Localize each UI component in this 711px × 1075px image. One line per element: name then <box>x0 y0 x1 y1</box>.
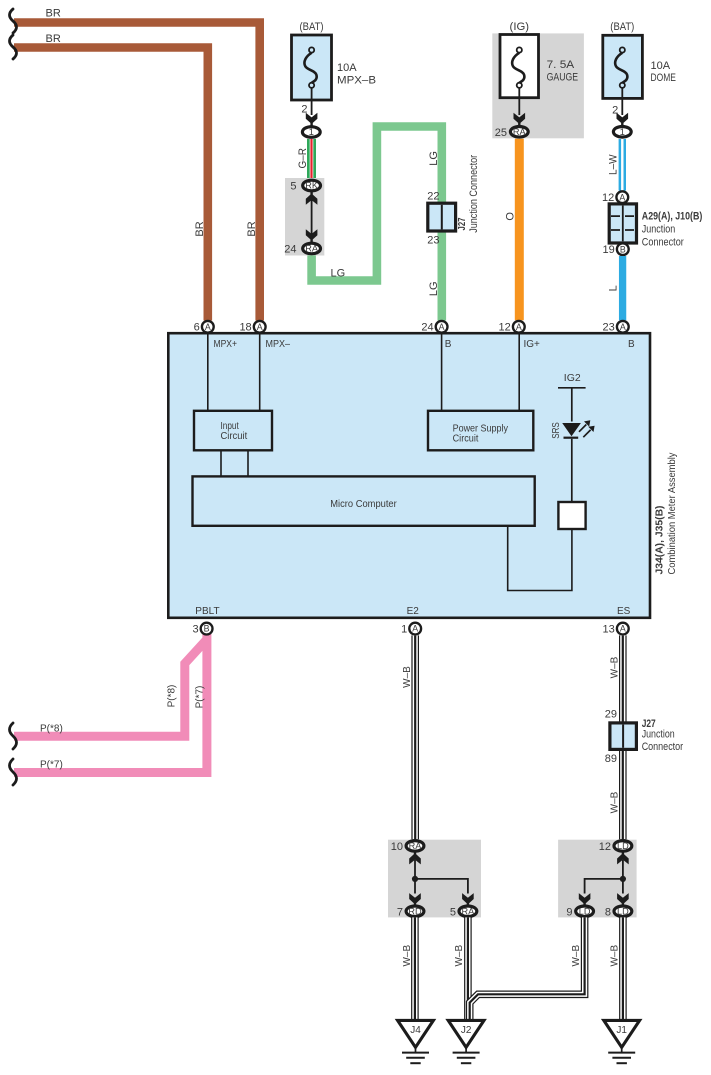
svg-text:12: 12 <box>602 192 614 204</box>
svg-text:1: 1 <box>401 624 407 636</box>
svg-text:DOME: DOME <box>651 72 676 84</box>
wire pin24 to power supply <box>441 335 443 412</box>
meter pin 6 A <box>202 321 214 333</box>
break symbol P(*8) <box>10 723 17 749</box>
wire G-R <box>307 139 316 179</box>
svg-text:A: A <box>516 322 522 332</box>
svg-text:5: 5 <box>290 181 296 193</box>
svg-text:IG2: IG2 <box>564 372 581 384</box>
svg-text:W–B: W–B <box>402 666 413 688</box>
wire W-B RD7 to ground J4 <box>411 917 419 1020</box>
svg-text:RA: RA <box>513 127 527 137</box>
arrow down into RA <box>306 229 318 242</box>
meter pin 24 A <box>436 321 448 333</box>
connector pin 12 A <box>616 191 628 203</box>
wire branch to LD 9 <box>585 879 623 894</box>
arrow up into RA 10 <box>409 852 421 865</box>
wire IG2 to LED <box>571 388 573 422</box>
arrow into connector 1 (DOME) <box>617 113 629 126</box>
junction dot (left block) <box>412 876 418 882</box>
svg-text:J1: J1 <box>616 1025 627 1036</box>
svg-text:O: O <box>505 212 517 221</box>
connector oval 1 (DOME) <box>613 127 631 138</box>
svg-text:B: B <box>628 339 635 350</box>
svg-text:1: 1 <box>309 127 314 137</box>
combination meter assembly box <box>168 333 650 618</box>
svg-text:BR: BR <box>46 8 61 20</box>
svg-text:W–B: W–B <box>402 945 413 967</box>
svg-text:5: 5 <box>450 906 456 918</box>
svg-text:W–B: W–B <box>609 945 620 967</box>
wire micro computer to resistor <box>508 526 572 591</box>
wire BR (top, to pin 18) <box>14 23 260 321</box>
svg-text:PBLT: PBLT <box>195 606 219 617</box>
svg-text:12: 12 <box>599 841 611 853</box>
micro computer box <box>193 476 535 525</box>
svg-text:J2: J2 <box>461 1025 472 1036</box>
svg-text:W–B: W–B <box>609 791 620 813</box>
arrow into connector RA 25 <box>514 113 526 126</box>
wire input to micro computer right <box>247 451 249 477</box>
meter pin 13 A <box>617 623 629 635</box>
connector oval RA pin 10 <box>406 841 424 852</box>
wire W-B LD9 to ground J2 <box>470 917 585 1020</box>
connector oval 1 (MPX-B) <box>302 127 320 138</box>
wire LG loop <box>312 127 442 281</box>
svg-text:LG: LG <box>428 151 440 166</box>
svg-text:LD: LD <box>579 907 591 917</box>
svg-text:MPX–B: MPX–B <box>337 75 376 87</box>
fuse 10A MPX-B (BAT) <box>292 21 377 115</box>
meter pin 3 B <box>201 623 213 635</box>
junction dot (right block) <box>620 876 626 882</box>
arrow up into RK <box>306 192 318 205</box>
arrow down into RA 5 <box>462 893 474 906</box>
svg-text:P(*7): P(*7) <box>40 760 63 771</box>
meter pin 12 A <box>513 321 525 333</box>
svg-text:E2: E2 <box>407 606 420 617</box>
svg-text:P(*7): P(*7) <box>195 686 206 709</box>
ground J4 <box>398 1020 434 1063</box>
svg-text:P(*8): P(*8) <box>40 724 63 735</box>
svg-text:9: 9 <box>566 906 572 918</box>
connector oval RK pin 5 <box>303 180 321 191</box>
meter pin 1 A <box>409 623 421 635</box>
connector block background (IG fuse) <box>492 33 584 138</box>
fuse 7.5A GAUGE (IG) <box>500 21 578 115</box>
svg-text:B: B <box>445 339 452 350</box>
wire RA10 branch <box>414 860 416 894</box>
wire P branch <box>14 641 206 737</box>
svg-text:Junction: Junction <box>642 224 676 236</box>
svg-text:RA: RA <box>462 907 476 917</box>
connector block LD background <box>558 840 637 918</box>
svg-text:29: 29 <box>605 709 617 721</box>
connector oval LD pin 8 <box>614 906 632 917</box>
svg-text:A: A <box>620 322 626 332</box>
connector block RA/RD/RA background <box>388 840 481 918</box>
arrow down into LD 9 <box>579 893 591 906</box>
wire W-B LD8 to ground J1 <box>619 917 627 1020</box>
svg-text:BR: BR <box>246 221 258 236</box>
svg-text:A: A <box>412 624 418 634</box>
svg-text:BR: BR <box>194 221 206 236</box>
arrow into connector 1 <box>306 113 318 126</box>
svg-text:A: A <box>620 624 626 634</box>
svg-text:Circuit: Circuit <box>221 431 248 442</box>
svg-text:Circuit: Circuit <box>453 434 479 445</box>
ground J2 <box>448 1020 484 1063</box>
svg-text:(IG): (IG) <box>510 21 530 33</box>
svg-text:IG+: IG+ <box>524 339 541 350</box>
wire P main (PBLT) <box>14 634 207 773</box>
wire branch to RA 5 <box>415 879 468 894</box>
svg-text:LD: LD <box>617 841 629 851</box>
connector block RK/RA background <box>285 178 324 256</box>
connector oval RA pin 25 <box>510 127 528 138</box>
svg-text:18: 18 <box>239 322 251 334</box>
meter pin 23 A <box>617 321 629 333</box>
svg-text:23: 23 <box>603 322 615 334</box>
svg-text:J27: J27 <box>457 217 468 230</box>
junction connector A29(A), J10(B) <box>609 204 636 243</box>
svg-text:Connector: Connector <box>642 741 684 753</box>
svg-text:Combination Meter Assembly: Combination Meter Assembly <box>666 452 678 575</box>
wire LG lower <box>437 231 446 321</box>
svg-text:A: A <box>257 322 263 332</box>
svg-text:24: 24 <box>421 322 433 334</box>
wire pin6 to input circuit <box>207 335 209 412</box>
svg-text:(BAT): (BAT) <box>300 21 324 33</box>
svg-text:LD: LD <box>617 907 629 917</box>
svg-text:W–B: W–B <box>454 945 465 967</box>
svg-text:P(*8): P(*8) <box>167 685 178 708</box>
svg-text:LG: LG <box>331 268 346 280</box>
break symbol P(*7) <box>10 759 17 785</box>
svg-text:W–B: W–B <box>609 656 620 678</box>
wire BR (second, to pin 6) <box>14 48 208 321</box>
junction connector J27 (29/89) <box>610 723 637 750</box>
svg-text:8: 8 <box>605 906 611 918</box>
wire W-B from ES <box>619 635 627 839</box>
svg-text:LG: LG <box>428 281 440 296</box>
arrow up into LD 12 <box>617 852 629 865</box>
svg-text:7. 5A: 7. 5A <box>547 59 575 71</box>
svg-text:10: 10 <box>391 841 403 853</box>
arrow down into RD 7 <box>409 893 421 906</box>
resistor box <box>558 502 585 529</box>
wire pin18 to input circuit <box>259 335 261 412</box>
svg-text:G–R: G–R <box>297 148 309 169</box>
svg-text:B: B <box>204 624 210 634</box>
svg-text:RD: RD <box>408 907 422 917</box>
svg-text:A: A <box>205 322 211 332</box>
svg-text:B: B <box>620 244 626 254</box>
svg-text:24: 24 <box>284 244 296 256</box>
svg-text:A29(A), J10(B): A29(A), J10(B) <box>642 211 703 223</box>
wire O <box>515 139 524 320</box>
svg-text:L: L <box>608 285 620 291</box>
svg-text:MPX–: MPX– <box>266 339 291 350</box>
connector pin 19 B <box>617 243 629 255</box>
svg-text:ES: ES <box>617 606 631 617</box>
svg-text:Junction: Junction <box>642 729 675 741</box>
input circuit box <box>194 411 272 451</box>
connector oval LD pin 12 <box>614 841 632 852</box>
svg-text:22: 22 <box>427 191 439 203</box>
svg-text:RA: RA <box>409 841 423 851</box>
svg-text:10A: 10A <box>337 62 357 74</box>
connector oval RA pin 5 <box>459 906 477 917</box>
svg-text:Micro Computer: Micro Computer <box>330 498 397 510</box>
arrow down into LD 8 <box>617 893 629 906</box>
connector oval RA pin 24 <box>303 243 321 254</box>
svg-text:MPX+: MPX+ <box>214 339 238 350</box>
wire input to micro computer left <box>220 451 222 477</box>
SRS warning LED <box>562 420 594 437</box>
svg-text:19: 19 <box>603 244 615 256</box>
meter pin 18 A <box>254 321 266 333</box>
power supply circuit box <box>428 411 533 451</box>
svg-text:89: 89 <box>605 753 617 765</box>
wire LED to resistor <box>571 439 573 502</box>
svg-text:1: 1 <box>620 127 625 137</box>
svg-text:GAUGE: GAUGE <box>547 72 579 84</box>
svg-text:13: 13 <box>603 624 615 636</box>
svg-text:Connector: Connector <box>642 237 684 249</box>
svg-text:RA: RA <box>305 244 319 254</box>
svg-text:(BAT): (BAT) <box>610 21 634 33</box>
svg-text:A: A <box>439 322 445 332</box>
wire LD12 branch <box>622 860 624 894</box>
wire L-W <box>619 139 626 191</box>
junction connector J27 (22/23) <box>428 203 456 231</box>
svg-text:J34(A), J35(B): J34(A), J35(B) <box>653 506 665 575</box>
wire between RK and RA <box>311 200 313 234</box>
connector oval RD pin 7 <box>406 906 424 917</box>
svg-text:A: A <box>619 192 625 202</box>
wire W-B from E2 <box>411 635 419 839</box>
wire W-B RA5 to ground J2 <box>464 917 472 1020</box>
svg-text:J4: J4 <box>410 1025 421 1036</box>
svg-text:25: 25 <box>495 127 507 139</box>
svg-text:12: 12 <box>499 322 511 334</box>
svg-text:W–B: W–B <box>571 945 582 967</box>
break symbol wire BR second <box>10 35 17 59</box>
ground J1 <box>604 1020 640 1063</box>
fuse 10A DOME (BAT) <box>603 21 676 115</box>
svg-text:BR: BR <box>46 33 61 45</box>
svg-text:6: 6 <box>194 322 200 334</box>
break symbol wire BR top <box>10 9 17 33</box>
svg-text:7: 7 <box>397 906 403 918</box>
svg-text:L–W: L–W <box>607 154 619 175</box>
svg-text:RK: RK <box>305 181 319 191</box>
wire L <box>619 256 626 320</box>
connector oval LD pin 9 <box>576 906 594 917</box>
wire pin12 to power supply <box>518 335 520 412</box>
svg-text:10A: 10A <box>651 60 671 72</box>
svg-text:Junction Connector: Junction Connector <box>468 155 480 233</box>
node IG2 <box>558 372 586 388</box>
svg-text:3: 3 <box>192 624 198 636</box>
svg-text:SRS: SRS <box>551 422 562 439</box>
svg-text:23: 23 <box>427 235 439 247</box>
